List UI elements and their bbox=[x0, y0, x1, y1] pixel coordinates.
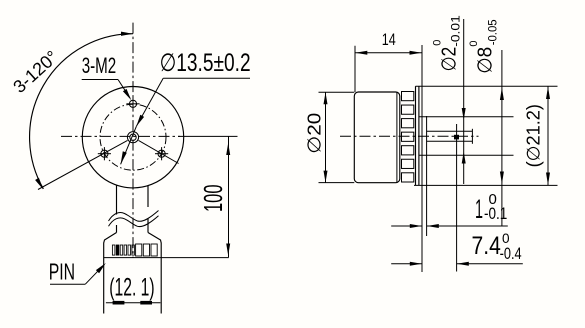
extension line to 100 dim bbox=[178, 135, 238, 137]
hole lower-right bbox=[155, 147, 168, 160]
100 dim line bbox=[228, 136, 230, 257]
dia8 boss right edge ext bbox=[426, 116, 428, 236]
flange bottom ext line 21.2 bbox=[414, 184, 558, 186]
dia20 arrow top bbox=[324, 92, 328, 104]
svg-text:∅13.5±0.2: ∅13.5±0.2 bbox=[160, 49, 251, 77]
7.4 arrow left bbox=[410, 262, 422, 266]
svg-text:1: 1 bbox=[475, 194, 483, 224]
svg-text:100: 100 bbox=[198, 185, 228, 213]
3-M2 arrow bbox=[123, 89, 131, 100]
1 arrow right bbox=[427, 224, 439, 228]
1 dim line left seg bbox=[391, 225, 422, 227]
hub inner circle bbox=[130, 134, 136, 140]
dia2 shaft end cap bbox=[471, 129, 473, 144]
motor body bbox=[354, 92, 400, 183]
horizontal centerline bbox=[61, 135, 180, 137]
svg-text:∅2: ∅2 bbox=[439, 47, 461, 72]
dia2 shaft bottom bbox=[427, 140, 473, 142]
dia20 ext bottom bbox=[319, 182, 355, 184]
dia8 bottom line bbox=[419, 154, 514, 156]
flange plate lines bbox=[415, 86, 417, 185]
100 arrow top bbox=[226, 143, 230, 155]
svg-text:14: 14 bbox=[382, 30, 396, 49]
7.4 arrow right bbox=[457, 262, 469, 266]
12.1 arrow right bbox=[140, 301, 152, 305]
dia13.5 arrow1 bbox=[136, 115, 144, 127]
svg-text:7.4: 7.4 bbox=[472, 232, 501, 260]
PIN leader bbox=[85, 266, 103, 284]
14 dim line bbox=[355, 52, 422, 54]
cable break wave lower bbox=[109, 216, 159, 227]
cable upper segment bbox=[116, 185, 118, 214]
1 arrow left bbox=[410, 224, 422, 228]
ray 330 deg bbox=[139, 140, 179, 163]
dim line A 21.2 bbox=[501, 50, 503, 227]
teeth stack bbox=[402, 92, 414, 183]
dia20 ext top bbox=[319, 91, 355, 93]
dia8 arrow bottom bbox=[462, 152, 466, 164]
arc arrow bottom bbox=[35, 178, 43, 190]
svg-text:PIN: PIN bbox=[49, 258, 75, 284]
svg-text:-0.1: -0.1 bbox=[484, 204, 507, 223]
dia2 tick bbox=[454, 135, 459, 140]
12.1 dim line bbox=[106, 302, 160, 304]
cable break wave upper bbox=[109, 211, 159, 222]
pin bars bbox=[112, 245, 134, 255]
dia8 top line bbox=[419, 116, 514, 118]
dim line B 21.2 bbox=[547, 86, 549, 185]
outer circle body bbox=[82, 87, 183, 188]
3-M2 leader bbox=[118, 80, 130, 99]
svg-text:∅8: ∅8 bbox=[474, 47, 496, 74]
arrowB bottom bbox=[546, 173, 550, 186]
dia2 shaft top bbox=[427, 130, 473, 132]
ray 210 deg bbox=[38, 140, 128, 189]
svg-text:(∅21.2): (∅21.2) bbox=[524, 104, 544, 167]
dia20 arrow bottom bbox=[324, 171, 328, 183]
vertical centerline bbox=[132, 23, 134, 258]
svg-text:-0.01: -0.01 bbox=[449, 15, 463, 47]
14 arrow left bbox=[355, 51, 367, 55]
arrowA bottom bbox=[500, 172, 504, 185]
hub outer circle bbox=[127, 132, 138, 143]
svg-text:∅20: ∅20 bbox=[304, 113, 325, 154]
angle dimension arc 3-120 bbox=[30, 34, 133, 189]
svg-text:(12. 1): (12. 1) bbox=[109, 274, 154, 302]
100 arrow bottom bbox=[226, 244, 230, 256]
svg-text:0: 0 bbox=[431, 40, 443, 46]
svg-text:3-M2: 3-M2 bbox=[82, 53, 117, 78]
arrowA top bbox=[500, 88, 504, 101]
arc arrow top bbox=[121, 32, 133, 36]
flange right edge / ext line bbox=[421, 45, 423, 272]
7.4 dim line right seg bbox=[457, 263, 523, 265]
arrowB top bbox=[546, 87, 550, 100]
connector outline right bbox=[148, 233, 161, 314]
dia13.5 leader bbox=[136, 78, 163, 126]
cable lower segment bbox=[116, 225, 118, 233]
hole lower-left bbox=[98, 147, 111, 160]
dia13.5 through line bbox=[121, 126, 137, 164]
svg-text:0: 0 bbox=[468, 40, 480, 46]
svg-text:-0.05: -0.05 bbox=[486, 19, 500, 45]
connector pin row base line bbox=[104, 257, 229, 259]
7.4 dim line left seg bbox=[391, 263, 422, 265]
dia13.5 underline bbox=[163, 77, 250, 79]
dia8 arrow top bbox=[462, 108, 466, 120]
hole top bbox=[126, 97, 139, 110]
PIN arrow bbox=[96, 263, 106, 273]
dia20 dim line bbox=[325, 92, 327, 182]
dia8 dim line bbox=[463, 19, 465, 184]
flange top ext line 21.2 bbox=[416, 85, 558, 87]
dia2 ext line vertical bbox=[456, 124, 458, 272]
dia13.5 arrow2 bbox=[121, 151, 127, 164]
bolt circle dia 13.5 bbox=[100, 104, 166, 170]
svg-text:-0.4: -0.4 bbox=[500, 244, 522, 263]
3-M2 underline bbox=[82, 79, 118, 81]
12.1 arrow left bbox=[113, 301, 125, 305]
14 ext left bbox=[354, 46, 356, 92]
body seam line bbox=[396, 93, 398, 183]
pin boxes bbox=[136, 244, 158, 256]
14 arrow right bbox=[410, 51, 422, 55]
1 dim line right seg bbox=[427, 225, 508, 227]
connector outline left bbox=[104, 233, 117, 314]
PIN underline bbox=[50, 283, 85, 285]
side centerline bbox=[340, 135, 479, 137]
